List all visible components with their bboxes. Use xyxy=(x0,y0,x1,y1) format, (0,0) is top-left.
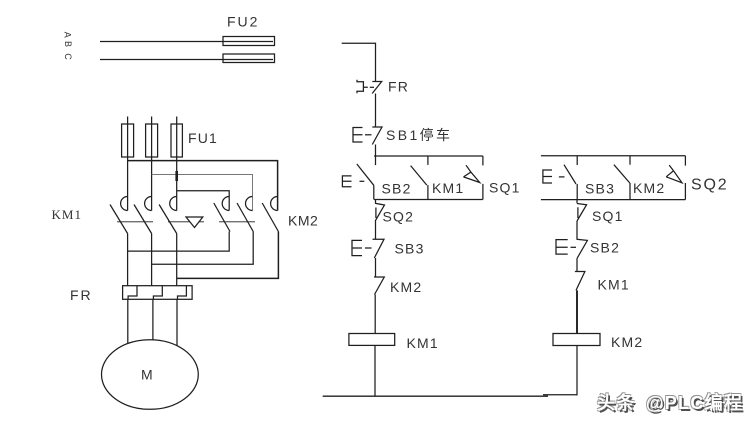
svg-text:KM2: KM2 xyxy=(288,213,318,229)
FR heater element 2 xyxy=(153,286,162,300)
contactor KM2 pole 6 fixed contact xyxy=(271,197,278,211)
limit switch SQ1 NO stub xyxy=(482,156,484,165)
wire bus phase3 to KM2 pole 4 xyxy=(177,191,230,211)
svg-text:KM1: KM1 xyxy=(52,207,82,222)
mechanical link triangle xyxy=(186,217,203,228)
contact KM2 NO blade xyxy=(614,165,630,183)
contact KM1 NO stub xyxy=(427,156,429,165)
SB3 link dash xyxy=(365,247,372,249)
contactor KM2 pole 5 fixed contact xyxy=(246,197,253,211)
FR heater element 3 xyxy=(178,286,187,300)
svg-text:KM1: KM1 xyxy=(407,335,439,351)
wire KM2 pole6 output to phase3 xyxy=(177,232,279,279)
contactor KM2 pole 6 blade xyxy=(262,203,278,232)
svg-text:SQ2: SQ2 xyxy=(691,177,728,194)
contactor KM1 pole 3 fixed contact xyxy=(170,197,177,211)
wire phase 2 to KM1 pole 2 xyxy=(151,117,153,211)
SB1 link dash xyxy=(365,134,372,136)
wire SB2 bottom stub xyxy=(373,185,375,199)
limit switch SQ1b NC xyxy=(577,200,587,221)
contactor KM1 pole 3 blade xyxy=(159,205,177,234)
wire FR to motor 2 xyxy=(152,299,154,340)
contact SB2 NO blade xyxy=(357,164,374,185)
wire SB3 to KM2 xyxy=(375,258,377,277)
fuse FU1 element c xyxy=(171,124,182,157)
fuse FU2 element a xyxy=(223,37,275,46)
wire coil KM2 to bottom rail xyxy=(576,346,578,396)
button SB2b actuator xyxy=(556,240,568,255)
motor M xyxy=(101,340,198,410)
svg-text:SB3: SB3 xyxy=(585,181,615,197)
fuse FU1 element b xyxy=(146,124,158,157)
mechanical link dashed xyxy=(117,221,269,223)
wire bus phase1 to KM2 pole 6 xyxy=(128,161,278,211)
thermal relay FR heater box xyxy=(123,286,193,300)
wire FR to motor 1 xyxy=(127,299,129,343)
wire KM1 pole1 output xyxy=(127,234,129,286)
contactor KM2 pole 4 fixed contact xyxy=(222,197,229,211)
svg-text:FR: FR xyxy=(70,287,93,303)
contactor KM1 pole 1 fixed contact xyxy=(121,197,128,211)
wire SQ2 to SB3 xyxy=(375,221,377,239)
wire phase 1 to KM1 pole 1 xyxy=(127,117,129,211)
wire KM2 to coil xyxy=(374,295,376,334)
wire phase line 1 xyxy=(100,41,273,43)
svg-text:SB1停车: SB1停车 xyxy=(386,127,452,143)
button SB3b actuator xyxy=(543,170,552,183)
wire SQ2b bottom stub xyxy=(684,183,686,200)
contact SB2b NC xyxy=(577,239,588,258)
wire KM1 pole2 output xyxy=(151,234,153,286)
limit switch SQ1 NO arm xyxy=(464,165,480,182)
wire bottom rail right step xyxy=(543,394,578,396)
FR contact link dash xyxy=(370,86,374,88)
contact KM2 NO stub xyxy=(629,156,631,165)
wire group2 bottom rail xyxy=(541,199,686,201)
wire SB3b bottom stub xyxy=(576,184,578,200)
coil KM1 xyxy=(349,334,395,346)
watermark xyxy=(597,389,743,415)
contactor KM1 pole 2 blade xyxy=(134,205,152,234)
wire FR to motor 3 xyxy=(176,299,178,346)
svg-text:KM1: KM1 xyxy=(432,180,464,196)
contact KM1b NC xyxy=(575,272,585,291)
FR heater element 1 xyxy=(128,286,137,300)
contact SB2 NO stub xyxy=(375,156,377,165)
svg-text:SQ1: SQ1 xyxy=(592,208,624,224)
contactor KM2 pole 5 blade xyxy=(237,203,253,232)
wire group2 top rail xyxy=(541,155,686,157)
junction crossing mark xyxy=(175,171,178,181)
fuse FU2 element b xyxy=(223,54,275,63)
wire SQ1 bottom stub xyxy=(482,184,484,200)
wire phase line 2 xyxy=(100,59,273,61)
contact SB1 NC xyxy=(372,127,382,145)
svg-text:SB2: SB2 xyxy=(590,240,620,256)
contactor KM2 pole 4 blade xyxy=(214,203,230,232)
coil KM2 xyxy=(553,334,600,346)
limit switch SQ2b NO arm xyxy=(666,165,682,183)
wire control top feed xyxy=(342,43,376,81)
svg-text:SQ1: SQ1 xyxy=(489,180,521,196)
SB2 link dash xyxy=(360,180,365,182)
svg-text:FU1: FU1 xyxy=(188,130,218,146)
wire bottom rail xyxy=(323,395,548,397)
wire bus phase2 to KM2 pole 5 xyxy=(152,175,253,211)
wire SQ1b to SB2b xyxy=(576,221,578,239)
wire SB2b to KM1 NC xyxy=(576,259,578,272)
wire group1 bottom rail xyxy=(374,199,483,201)
wire group1 top rail xyxy=(374,155,483,157)
svg-text:SB2: SB2 xyxy=(382,181,412,197)
button SB1 actuator xyxy=(353,128,363,143)
svg-text:C: C xyxy=(63,53,73,60)
SB3b link dash xyxy=(559,176,565,178)
contact SB3b NO blade xyxy=(564,165,576,184)
wire coil to bottom rail xyxy=(374,345,376,395)
wire phase 3 to KM1 pole 3 xyxy=(176,117,178,211)
fuse FU1 element a xyxy=(122,124,134,157)
limit switch SQ2 NC xyxy=(375,200,385,222)
contactor KM1 pole 1 blade xyxy=(110,205,128,234)
svg-text:KM2: KM2 xyxy=(633,180,665,196)
svg-text:KM2: KM2 xyxy=(611,334,643,350)
thermal contact FR heater symbol xyxy=(357,80,368,93)
SB2b link dash xyxy=(571,246,577,248)
svg-text:B: B xyxy=(63,41,73,47)
button SB3 actuator xyxy=(352,240,362,255)
contact SB3 NC xyxy=(373,239,385,258)
svg-text:M: M xyxy=(141,367,153,383)
wire KM1 pole3 output xyxy=(176,234,178,286)
contact KM2 NC xyxy=(374,277,384,295)
wire KM1 NO bottom stub xyxy=(427,185,429,199)
wire KM2 pole4 output to phase1 xyxy=(128,232,230,252)
limit switch SQ2b NO stub xyxy=(684,156,686,166)
svg-text:KM2: KM2 xyxy=(390,279,422,295)
svg-text:FU2: FU2 xyxy=(227,14,259,30)
button SB2 actuator xyxy=(342,176,351,187)
svg-text:FR: FR xyxy=(388,79,409,95)
svg-text:A: A xyxy=(63,32,73,38)
wire KM2 pole5 output to phase2 xyxy=(152,232,254,265)
wire KM2 NO bottom stub xyxy=(629,183,631,200)
wire FR to SB1 xyxy=(375,94,377,128)
wire SB1 to rail xyxy=(375,145,377,157)
contactor KM1 pole 2 fixed contact xyxy=(145,197,152,211)
svg-text:KM1: KM1 xyxy=(598,277,630,293)
svg-text:SQ2: SQ2 xyxy=(383,209,415,225)
contact KM1 NO blade xyxy=(411,166,427,186)
svg-text:SB3: SB3 xyxy=(395,241,425,257)
wire KM1b to coil xyxy=(576,290,578,333)
contact FR NC xyxy=(372,82,382,94)
contact SB3b NO stub xyxy=(576,156,578,165)
